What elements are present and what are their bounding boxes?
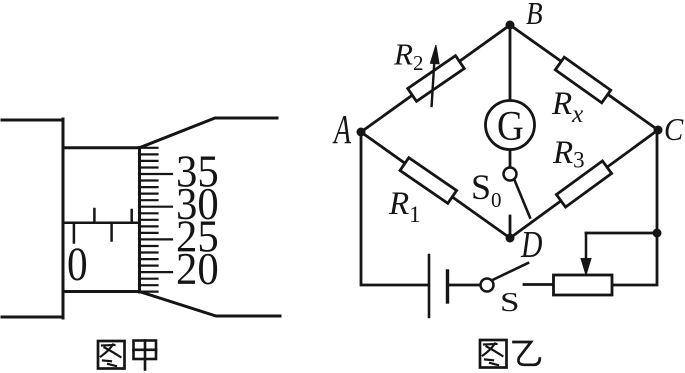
caption 图乙 xyxy=(480,340,507,368)
svg-text:G: G xyxy=(497,103,524,150)
svg-text:20: 20 xyxy=(176,245,219,294)
thimble graduation ticks xyxy=(139,148,172,292)
svg-text:D: D xyxy=(520,225,543,266)
main scale tick below line 1 xyxy=(73,223,76,243)
wire B to galvanometer xyxy=(509,25,512,100)
resistor R1 xyxy=(400,158,457,204)
wire battery to switch S xyxy=(449,284,481,287)
main scale tick below line 2 xyxy=(110,223,113,241)
svg-text:C: C xyxy=(664,112,684,148)
svg-text:S: S xyxy=(500,287,520,317)
rheostat wiper arrow xyxy=(585,233,588,260)
switch S0 blade xyxy=(515,181,530,218)
rheostat wiper tap wire xyxy=(586,232,657,235)
main scale tick above line 1 xyxy=(93,209,96,223)
glyph 乙 xyxy=(514,342,540,365)
resistor R3 xyxy=(556,161,611,207)
caption 图甲 xyxy=(98,341,125,369)
R2 arrow xyxy=(430,45,439,106)
node C xyxy=(654,126,663,135)
resistor R2 xyxy=(408,56,465,102)
svg-text:R3: R3 xyxy=(552,135,585,173)
main scale tick above line 2 xyxy=(130,210,133,223)
thimble outline bottom xyxy=(141,292,280,316)
switch S blade xyxy=(494,263,529,280)
svg-text:R1: R1 xyxy=(388,186,421,227)
wire rheostat right to C xyxy=(612,130,657,285)
wire switch S to rheostat xyxy=(524,283,553,286)
switch S0 pivot xyxy=(504,168,517,181)
resistor Rx xyxy=(555,57,610,103)
svg-text:A: A xyxy=(332,107,351,153)
battery long plate xyxy=(428,255,431,317)
battery short plate xyxy=(446,271,449,302)
svg-text:Rx: Rx xyxy=(551,86,583,128)
wire B to C xyxy=(510,25,658,130)
wire galvanometer to switch S0 xyxy=(509,150,512,167)
node B xyxy=(506,21,515,30)
wire stub above node D xyxy=(509,216,512,234)
thimble outline top xyxy=(140,118,277,148)
wire A to D xyxy=(361,132,510,238)
svg-text:0: 0 xyxy=(67,237,88,291)
node D xyxy=(506,234,515,243)
wire A down to battery row xyxy=(361,132,428,285)
micrometer frame xyxy=(2,119,63,318)
node A xyxy=(357,128,366,137)
junction of wiper tap on C wire xyxy=(653,229,662,238)
thimble bevel edge xyxy=(138,148,141,293)
svg-text:R2: R2 xyxy=(393,37,423,76)
micrometer sleeve outline xyxy=(63,148,139,292)
sleeve reference line xyxy=(63,221,139,224)
galvanometer G xyxy=(486,101,535,150)
wire D to C xyxy=(510,130,658,238)
wire A to B xyxy=(361,25,510,132)
rheostat body xyxy=(554,275,613,295)
svg-text:S0: S0 xyxy=(471,167,502,212)
switch S pivot xyxy=(481,279,494,292)
svg-text:B: B xyxy=(526,0,543,32)
